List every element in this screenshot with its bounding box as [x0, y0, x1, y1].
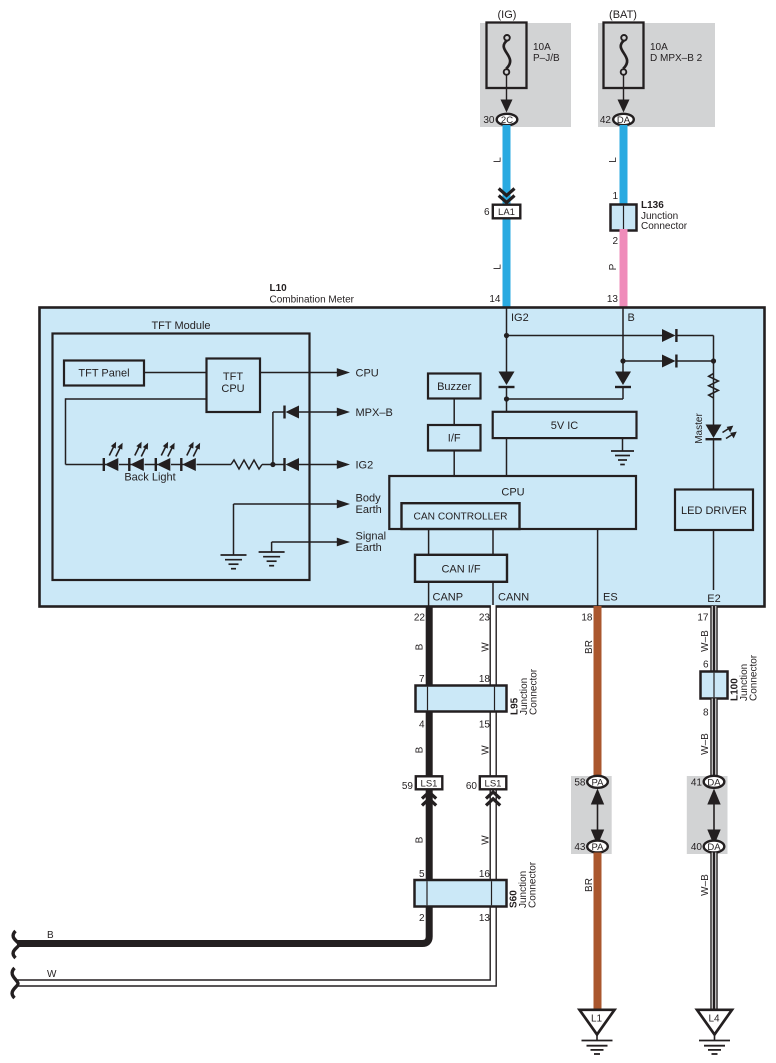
svg-text:L: L	[493, 157, 504, 163]
svg-text:LS1: LS1	[485, 779, 502, 790]
TFT Module box	[53, 334, 310, 581]
wire LED driver to E2 pin	[713, 530, 715, 590]
svg-text:Master: Master	[694, 413, 705, 444]
fuse block background (IG)	[480, 23, 571, 127]
wire BR lower segment	[594, 853, 602, 1011]
wire TFT Panel to TFT CPU	[144, 372, 207, 374]
node on B wire	[620, 358, 625, 363]
wire diode row 2 to right branch	[678, 360, 714, 362]
connector oval DA pin 41	[704, 776, 725, 789]
CPU box	[389, 476, 636, 529]
I/F box	[428, 425, 481, 451]
connector oval PA pin 43	[587, 841, 608, 854]
svg-text:41: 41	[691, 778, 703, 789]
svg-text:18: 18	[581, 613, 593, 624]
svg-text:Signal: Signal	[356, 531, 387, 543]
wire resistor to diode	[262, 464, 284, 466]
svg-text:W–B: W–B	[700, 874, 711, 896]
svg-text:I/F: I/F	[448, 433, 461, 445]
combination meter box L10	[40, 308, 765, 607]
wire IG2 node to right diode row 1	[507, 335, 663, 337]
junction connector L95	[416, 686, 507, 712]
connector oval DA pin 40	[704, 841, 725, 854]
wire CAN I/F to CANN pin	[492, 582, 494, 606]
arrow link between PA connectors	[591, 789, 604, 846]
ground stub L1	[596, 1035, 598, 1041]
in-line connector background (PA)	[571, 776, 612, 854]
svg-text:L136: L136	[641, 200, 664, 211]
svg-text:B: B	[415, 836, 426, 843]
svg-text:5: 5	[419, 869, 425, 880]
svg-text:10A: 10A	[650, 42, 668, 53]
svg-text:6: 6	[484, 207, 490, 218]
wire B (CANP, black) from pin 22 down to S60 and left to edge	[17, 606, 429, 944]
wire signal earth	[272, 541, 339, 543]
wire master LED to LED driver	[713, 440, 715, 490]
arrow link between DA connectors	[707, 789, 720, 846]
svg-text:LA1: LA1	[498, 207, 515, 218]
svg-text:DA: DA	[617, 115, 631, 126]
svg-text:CAN I/F: CAN I/F	[441, 564, 480, 576]
svg-text:P: P	[608, 263, 619, 270]
wire	[119, 464, 132, 466]
ground (5V IC)	[611, 451, 634, 465]
connector LS1 (CANP)	[416, 776, 443, 789]
wire CPU to ES pin	[597, 529, 599, 606]
svg-text:L: L	[608, 157, 619, 163]
TFT CPU box U2	[207, 359, 261, 413]
svg-text:CPU: CPU	[501, 487, 524, 499]
in-line connector background (DA)	[687, 776, 728, 854]
wire L (blue) from 2C to pin 14	[503, 125, 511, 307]
wire P (pink) from L136 to pin 13	[620, 229, 628, 307]
svg-text:Buzzer: Buzzer	[437, 381, 472, 393]
L10 component label	[270, 283, 355, 306]
svg-text:L10: L10	[270, 283, 288, 294]
diode D10 (B down)	[615, 372, 631, 389]
wire body earth	[234, 503, 339, 505]
wire branch to resistor (master LED)	[713, 374, 715, 400]
junction connector L100	[701, 672, 728, 699]
back light LED D3	[155, 442, 175, 471]
diode D9 (IG2 down)	[499, 372, 515, 389]
back light LED D1	[103, 442, 123, 471]
svg-text:43: 43	[574, 842, 586, 853]
wire body earth vertical	[233, 504, 235, 555]
svg-text:IG2: IG2	[356, 460, 374, 472]
svg-text:2: 2	[419, 913, 425, 924]
wire break squiggle (B)	[13, 931, 19, 958]
wire B node to right diode row 2	[623, 360, 663, 362]
wire right branch vertical	[713, 336, 715, 375]
wire buzzer to I/F	[453, 399, 455, 426]
svg-text:B: B	[47, 930, 54, 941]
svg-text:LS1: LS1	[421, 779, 438, 790]
svg-text:(IG): (IG)	[498, 9, 517, 21]
wire junction row horizontal	[507, 398, 624, 400]
arrow Body Earth	[337, 500, 350, 509]
svg-text:13: 13	[479, 913, 491, 924]
ground symbol L1	[582, 1041, 613, 1055]
shield chevrons (CANN)	[486, 792, 500, 805]
diode D8 (row 2)	[662, 355, 678, 368]
svg-text:18: 18	[479, 674, 491, 685]
svg-text:CANP: CANP	[433, 592, 464, 604]
node at right branch	[711, 358, 716, 363]
svg-text:L1: L1	[591, 1014, 603, 1025]
svg-text:BR: BR	[584, 878, 595, 892]
svg-text:CPU: CPU	[356, 368, 379, 380]
svg-text:CAN CONTROLLER: CAN CONTROLLER	[414, 512, 508, 523]
LED D11 (master)	[706, 425, 737, 441]
svg-text:W–B: W–B	[700, 733, 711, 755]
svg-text:D MPX–B 2: D MPX–B 2	[650, 53, 703, 64]
arrow IG2	[337, 460, 350, 469]
back light LED D2	[128, 442, 148, 471]
ground triangle L1	[580, 1010, 615, 1035]
diode D5 (MPX-B)	[283, 406, 299, 419]
svg-text:42: 42	[600, 115, 612, 126]
svg-text:B: B	[415, 746, 426, 753]
CAN CONTROLLER box	[402, 503, 520, 529]
L100 label	[730, 654, 760, 701]
arrow from fuse F2 to connector DA	[618, 74, 630, 113]
wire break squiggle (W)	[12, 968, 18, 998]
svg-text:DA: DA	[707, 842, 721, 853]
svg-text:ES: ES	[603, 592, 618, 604]
back light LED D4	[180, 442, 200, 471]
svg-text:(BAT): (BAT)	[609, 9, 637, 21]
wire BR (ES, brown) upper segment	[594, 606, 602, 778]
ground stub L4	[714, 1035, 716, 1041]
svg-text:8: 8	[703, 708, 709, 719]
svg-text:1: 1	[612, 191, 618, 202]
svg-text:L4: L4	[708, 1014, 720, 1025]
wire W-B lower segment	[710, 853, 717, 1011]
svg-text:PA: PA	[592, 842, 605, 853]
ground symbol L4	[699, 1041, 730, 1055]
junction connector S60	[415, 880, 507, 907]
svg-text:L: L	[493, 264, 504, 270]
svg-text:CPU: CPU	[221, 383, 244, 395]
svg-text:TFT Panel: TFT Panel	[78, 368, 129, 380]
svg-text:2C: 2C	[501, 115, 513, 126]
svg-text:P–J/B: P–J/B	[533, 53, 560, 64]
wire diode row 1 to right branch	[678, 335, 714, 337]
wire diode to IG2 arrow	[299, 464, 339, 466]
fuse F2 10A D MPX-B 2	[604, 23, 644, 89]
svg-text:40: 40	[691, 842, 703, 853]
svg-text:13: 13	[607, 294, 619, 305]
wire node up to MPX-B diode	[272, 412, 274, 465]
connector LS1 (CANN)	[480, 776, 507, 789]
shield chevrons (CANP)	[422, 792, 436, 805]
wire to MPX-B diode	[273, 411, 284, 413]
connector oval 2C pin 30	[497, 114, 518, 126]
svg-text:15: 15	[479, 720, 491, 731]
wire CAN controller to CAN I/F left	[428, 529, 430, 555]
L95 label	[510, 668, 540, 715]
svg-text:Back Light: Back Light	[124, 472, 175, 484]
wire CAN I/F to CANP pin	[428, 582, 430, 606]
svg-text:W: W	[47, 969, 57, 980]
svg-text:CANN: CANN	[498, 592, 529, 604]
wire TFT CPU to CPU arrow	[260, 372, 339, 374]
svg-text:IG2: IG2	[511, 312, 529, 324]
wire signal earth vertical	[271, 542, 273, 552]
resistor R1 (back light)	[231, 460, 262, 469]
svg-text:2: 2	[612, 236, 618, 247]
arrow Signal Earth	[337, 538, 350, 547]
svg-text:LED DRIVER: LED DRIVER	[681, 505, 747, 517]
svg-text:Connector: Connector	[749, 654, 760, 701]
wire W-B (E2) upper segment	[710, 606, 717, 673]
arrow from fuse F1 to connector 2C	[501, 74, 513, 113]
ground triangle L4	[697, 1010, 732, 1035]
svg-text:10A: 10A	[533, 42, 551, 53]
svg-text:17: 17	[697, 613, 709, 624]
svg-text:23: 23	[479, 613, 491, 624]
wire B vertical	[622, 307, 624, 372]
resistor R2 (master)	[709, 374, 719, 399]
5V IC box	[493, 412, 637, 438]
junction connector L136	[611, 205, 637, 231]
svg-text:58: 58	[574, 778, 586, 789]
connector oval DA pin 42	[613, 114, 634, 126]
node on IG2 wire	[504, 333, 509, 338]
svg-text:B: B	[628, 312, 635, 324]
svg-text:TFT Module: TFT Module	[151, 320, 210, 332]
S60 label	[509, 861, 539, 908]
svg-text:W: W	[481, 835, 492, 845]
svg-text:Connector: Connector	[641, 221, 688, 232]
wire CAN controller to CAN I/F right	[492, 529, 494, 555]
wire resistor to master LED	[713, 400, 715, 425]
svg-text:Earth: Earth	[356, 542, 382, 554]
svg-text:7: 7	[419, 674, 425, 685]
shield chevrons on wire L	[499, 189, 515, 203]
svg-text:Combination Meter: Combination Meter	[270, 295, 355, 306]
wire 5V IC to ground	[622, 438, 624, 451]
ground (body earth)	[221, 555, 247, 569]
svg-text:5V IC: 5V IC	[551, 420, 579, 432]
wire LEDs to resistor	[197, 464, 232, 466]
fuse block background (BAT)	[598, 23, 715, 127]
wire	[145, 464, 159, 466]
svg-text:Connector: Connector	[528, 861, 539, 908]
connector LA1 pin 6	[493, 205, 521, 219]
CAN I/F box	[415, 555, 507, 582]
svg-text:BR: BR	[584, 640, 595, 654]
svg-text:W–B: W–B	[700, 630, 711, 652]
svg-text:22: 22	[414, 613, 426, 624]
wire back light vertical	[65, 398, 67, 464]
buzzer box	[428, 374, 481, 399]
node junction	[270, 462, 275, 467]
wire diode to MPX-B arrow	[299, 411, 339, 413]
ground (signal earth)	[259, 552, 285, 566]
wire B diode to junction row	[622, 388, 624, 400]
svg-text:Earth: Earth	[356, 504, 382, 516]
svg-text:W: W	[481, 745, 492, 755]
wire	[171, 464, 184, 466]
TFT Panel box	[64, 361, 144, 386]
svg-text:W: W	[481, 642, 492, 652]
svg-text:Connector: Connector	[529, 668, 540, 715]
svg-text:Body: Body	[356, 493, 382, 505]
label Signal Earth	[356, 531, 387, 555]
wire W-B middle segment	[710, 699, 717, 779]
svg-text:MPX–B: MPX–B	[356, 407, 393, 419]
svg-text:60: 60	[466, 781, 478, 792]
svg-text:DA: DA	[707, 777, 721, 788]
fuse F1 10A P-J/B	[487, 23, 527, 89]
svg-text:4: 4	[419, 720, 425, 731]
arrow CPU	[337, 368, 350, 377]
svg-text:14: 14	[489, 294, 501, 305]
connector oval PA pin 58	[587, 776, 608, 789]
wire L (blue) from DA to L136	[620, 125, 628, 206]
node on IG2 wire at junction row	[504, 396, 509, 401]
svg-text:16: 16	[479, 869, 491, 880]
svg-text:30: 30	[483, 115, 495, 126]
svg-text:6: 6	[703, 660, 709, 671]
wire I/F to CPU	[453, 451, 455, 477]
L136 label	[641, 200, 688, 232]
svg-text:PA: PA	[592, 777, 605, 788]
svg-text:TFT: TFT	[223, 371, 243, 383]
svg-text:B: B	[415, 643, 426, 650]
diode D6 (IG2)	[283, 458, 299, 471]
arrow MPX-B	[337, 408, 350, 417]
wire IG2 vertical into CPU	[506, 307, 508, 372]
svg-text:59: 59	[402, 781, 414, 792]
wire to back light LEDs	[66, 464, 107, 466]
wire W (CANN, white) from pin 23 down and left to edge	[15, 605, 493, 983]
LED DRIVER box	[675, 490, 753, 531]
svg-text:E2: E2	[707, 593, 720, 605]
wire TFT CPU left to back light branch	[66, 398, 207, 400]
diode D7 (row 1)	[662, 329, 678, 342]
label Body Earth	[356, 493, 382, 517]
